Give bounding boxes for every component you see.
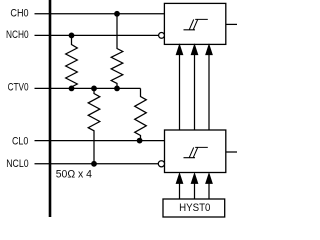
junction dot CL0/R4 — [137, 138, 143, 144]
arrowhead 3 into U1 — [206, 45, 212, 55]
control line 2 (HYST0 to U2) — [194, 180, 196, 199]
svg-text:CL0: CL0 — [12, 135, 28, 147]
comparator U1 box — [164, 3, 225, 44]
arrowhead 2 into U1 — [191, 45, 197, 55]
svg-text:HYST0: HYST0 — [179, 202, 210, 214]
control line 3 (HYST0 to U2) — [208, 180, 210, 199]
junction dot NCH0/R1 — [69, 33, 75, 39]
wire CL0 — [35, 140, 165, 142]
arrowhead 1 into U1 — [176, 45, 182, 55]
U2 inverting input bubble — [158, 161, 164, 167]
HYST0 box — [163, 199, 225, 217]
wire output U1 — [226, 23, 237, 25]
svg-text:50Ω x 4: 50Ω x 4 — [56, 168, 92, 180]
svg-text:CTV0: CTV0 — [8, 82, 29, 94]
U1 inverting input bubble — [159, 33, 165, 39]
junction dot CTV0/R3 — [91, 86, 97, 92]
junction dot CTV0/R1 — [69, 86, 75, 92]
resistor R2 (CH0 to CTV0) — [111, 14, 123, 89]
arrowhead 1 into U2 — [176, 174, 182, 184]
resistor R4 (CTV0 branch to CL0) — [135, 88, 147, 140]
svg-text:NCL0: NCL0 — [6, 158, 28, 170]
junction dot CH0/R2 — [114, 11, 120, 17]
svg-text:NCH0: NCH0 — [6, 29, 29, 41]
wire CH0 — [35, 13, 165, 15]
wire NCL0 — [35, 163, 159, 165]
wire NCH0 — [35, 34, 159, 36]
control line 3 (U2 to U1) — [208, 51, 210, 130]
junction dot NCL0/R3 — [91, 161, 97, 167]
control line 1 (U2 to U1) — [179, 51, 181, 130]
junction dot CTV0/R2/R4 — [114, 86, 120, 92]
control line 2 (U2 to U1) — [194, 51, 196, 130]
resistor R1 (NCH0 to CTV0) — [66, 35, 78, 88]
control line 1 (HYST0 to U2) — [179, 180, 181, 199]
U2 hysteresis symbol — [184, 147, 208, 157]
arrowhead 2 into U2 — [191, 174, 197, 184]
svg-text:CH0: CH0 — [10, 7, 28, 19]
wire CTV0 — [35, 87, 141, 89]
wire output U2 — [226, 151, 237, 153]
resistor R3 (CTV0 to NCL0) — [88, 88, 100, 163]
bus line (thick vertical) — [49, 0, 52, 217]
arrowhead 3 into U2 — [206, 174, 212, 184]
comparator U2 box — [165, 130, 226, 173]
U1 hysteresis symbol — [184, 19, 208, 29]
